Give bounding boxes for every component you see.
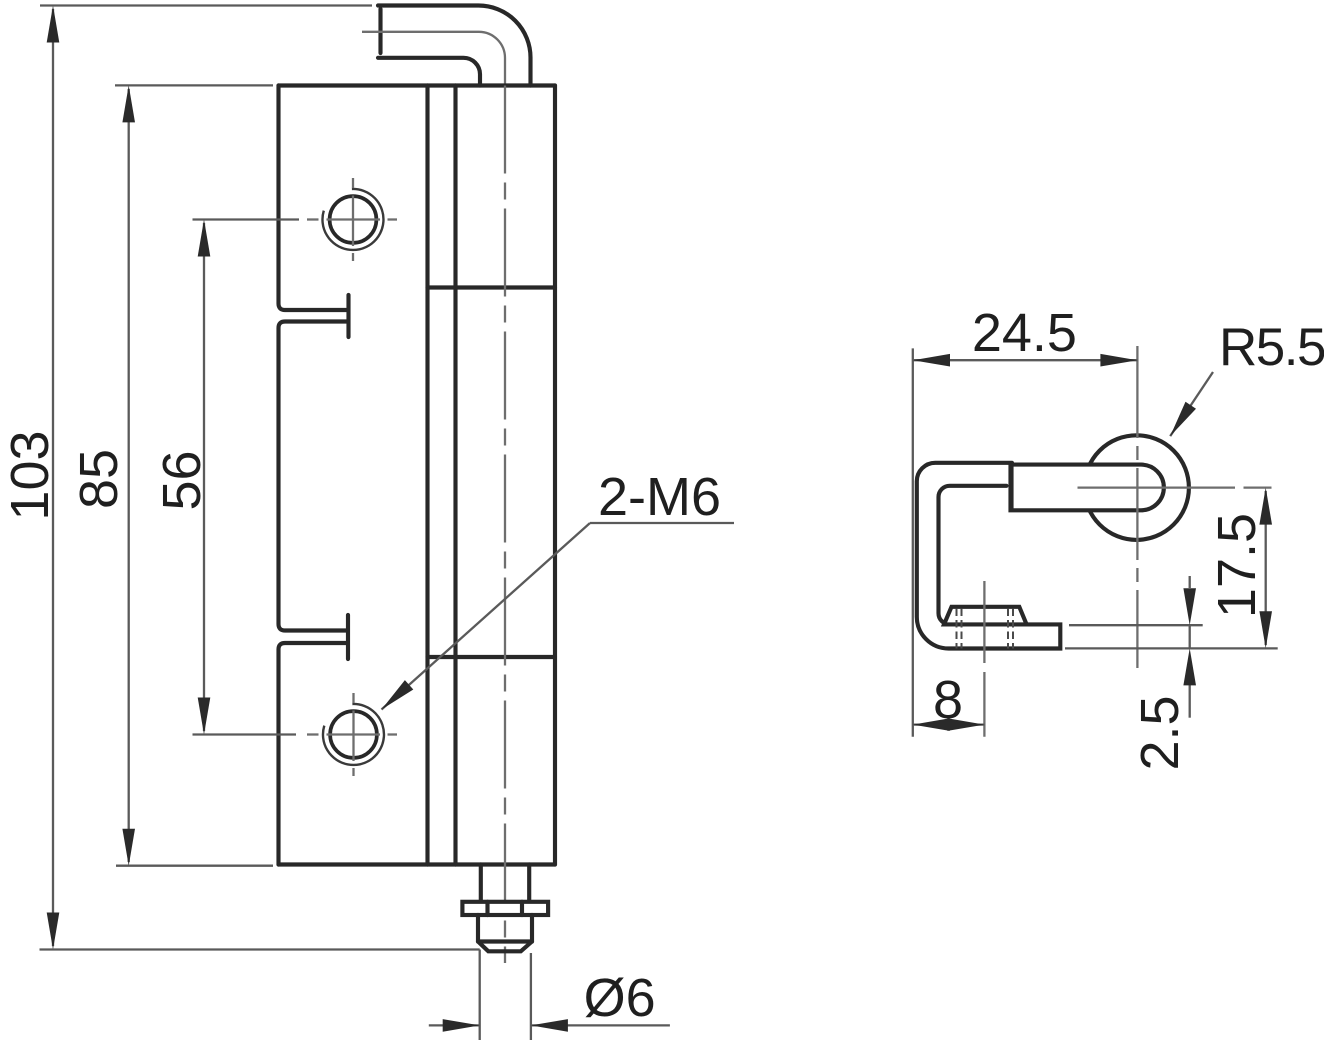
- pin column centerline: [504, 86, 506, 964]
- svg-text:R5.5: R5.5: [1219, 318, 1324, 377]
- hidden thread lines: [957, 609, 1014, 649]
- dimension 8: [913, 723, 985, 725]
- dimension 85: [115, 85, 273, 865]
- pin axis vertical centerline: [1136, 346, 1138, 668]
- svg-text:103: 103: [0, 430, 60, 520]
- pin side view: [1011, 465, 1164, 511]
- label 2-M6 leader: [382, 523, 735, 710]
- screw hole top: [307, 178, 397, 261]
- bracket side profile: [917, 463, 1061, 649]
- dimension 24.5: [913, 348, 1138, 736]
- dimension 103: [40, 6, 480, 950]
- pin axis horizontal centerline: [1078, 486, 1272, 488]
- dimension 17.5: [1065, 491, 1278, 648]
- dimension D6: [429, 950, 670, 1041]
- dimension 2.5: [1069, 576, 1203, 718]
- label R5.5 leader: [1170, 372, 1213, 436]
- screw hole bottom: [307, 693, 397, 776]
- rod centerline arc: [362, 32, 505, 86]
- svg-text:17.5: 17.5: [1207, 513, 1267, 618]
- svg-text:85: 85: [69, 449, 129, 509]
- svg-text:8: 8: [933, 670, 963, 730]
- bottom pivot pin: [462, 865, 548, 952]
- svg-text:24.5: 24.5: [972, 303, 1077, 363]
- svg-text:2.5: 2.5: [1130, 695, 1190, 770]
- svg-text:Ø6: Ø6: [584, 968, 656, 1028]
- hinge pin bent rod (top): [378, 6, 531, 86]
- hinge leaf outline: [279, 86, 556, 865]
- weld nut: [944, 607, 1027, 625]
- svg-text:56: 56: [152, 450, 212, 510]
- dimension 56: [193, 220, 300, 735]
- svg-text:2-M6: 2-M6: [598, 467, 721, 527]
- knuckle circle R5.5: [1084, 435, 1189, 540]
- hole axis centerline: [983, 581, 985, 737]
